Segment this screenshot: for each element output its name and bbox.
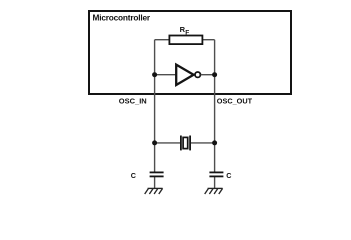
svg-text:C: C — [131, 171, 136, 180]
crystal X1 body — [183, 137, 188, 148]
microcontroller box — [89, 11, 291, 94]
svg-text:Microcontroller: Microcontroller — [93, 12, 151, 22]
ground right — [205, 188, 223, 194]
inverter output bubble — [195, 72, 200, 77]
wire: right vertical below capacitor — [214, 177, 216, 189]
capacitor C left top plate — [150, 171, 164, 173]
capacitor C right top plate — [209, 171, 223, 173]
wire: top left to resistor — [155, 39, 170, 41]
svg-text:F: F — [185, 30, 189, 37]
capacitor C right bottom plate — [209, 175, 223, 177]
wire: right vertical OSC_OUT net — [214, 40, 216, 172]
wire: inverter input — [155, 74, 176, 76]
inverter U1 triangle — [176, 65, 193, 85]
wire: inverter output — [201, 74, 215, 76]
junction dot right (crystal) — [212, 140, 217, 145]
wire: left vertical OSC_IN net — [154, 40, 156, 172]
junction dot left (inverter input) — [152, 72, 157, 77]
wire: resistor to top right — [202, 39, 215, 41]
ground left — [145, 188, 163, 194]
junction dot left (crystal) — [152, 140, 157, 145]
wire: crystal left — [155, 142, 180, 144]
wire: left vertical below capacitor — [154, 177, 156, 189]
wire: crystal right — [190, 142, 214, 144]
junction dot right (inverter output) — [212, 72, 217, 77]
crystal X1 right plate — [189, 136, 191, 151]
svg-text:C: C — [226, 171, 231, 180]
svg-text:OSC_IN: OSC_IN — [119, 97, 147, 106]
svg-text:OSC_OUT: OSC_OUT — [217, 97, 253, 106]
resistor RF — [169, 36, 202, 45]
capacitor C left bottom plate — [150, 175, 164, 177]
crystal X1 left plate — [180, 136, 182, 151]
